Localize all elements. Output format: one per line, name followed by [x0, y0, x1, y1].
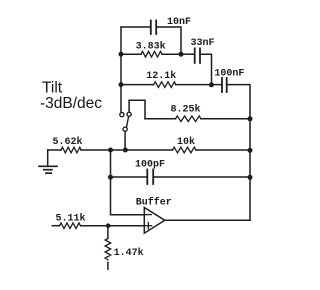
svg-text:33nF: 33nF: [191, 38, 215, 49]
svg-text:10nF: 10nF: [167, 17, 191, 28]
svg-text:5.11k: 5.11k: [56, 213, 86, 225]
svg-text:1.47k: 1.47k: [114, 247, 144, 259]
svg-text:12.1k: 12.1k: [146, 70, 176, 82]
svg-text:100nF: 100nF: [214, 68, 244, 79]
svg-text:3.83k: 3.83k: [136, 40, 166, 52]
svg-text:5.62k: 5.62k: [53, 136, 83, 148]
svg-text:Buffer: Buffer: [136, 197, 172, 209]
svg-text:Tilt: Tilt: [42, 80, 63, 97]
svg-text:100pF: 100pF: [135, 159, 165, 170]
svg-text:8.25k: 8.25k: [171, 104, 201, 116]
svg-text:10k: 10k: [177, 136, 195, 148]
svg-text:-3dB/dec: -3dB/dec: [40, 95, 102, 112]
